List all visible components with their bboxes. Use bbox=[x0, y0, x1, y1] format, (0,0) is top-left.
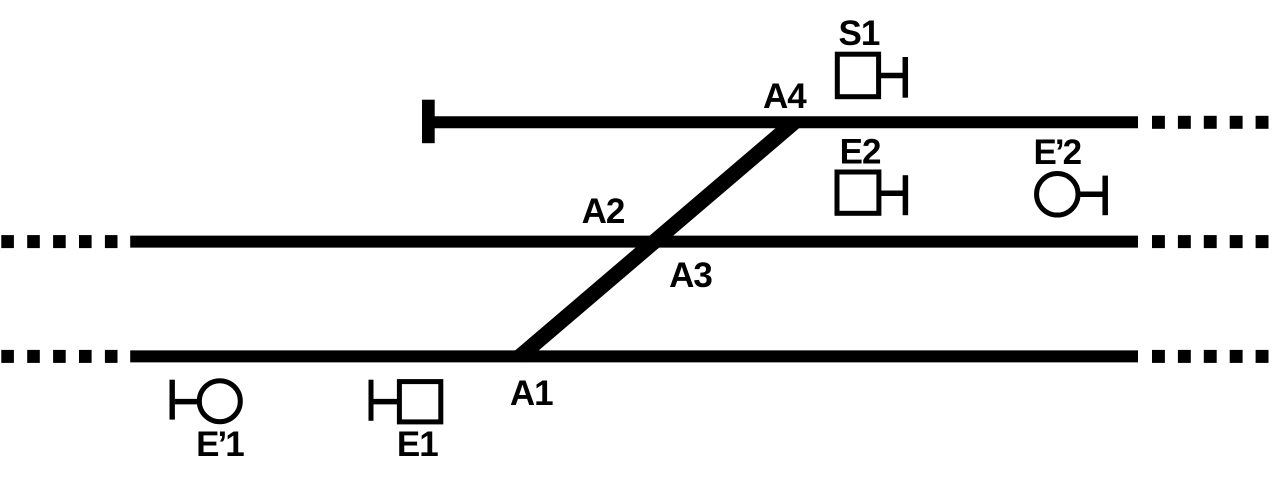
svg-text:A2: A2 bbox=[582, 192, 625, 231]
signal E'1 (circle head on post, left-pointing) bbox=[172, 380, 240, 422]
track T1 right dashed continuation bbox=[1152, 116, 1269, 129]
signal E2 (square head on post, right-pointing) bbox=[837, 172, 905, 215]
crossover diagonal track (A1 to A4) bbox=[520, 122, 794, 356]
track T2 right dashed continuation bbox=[1152, 235, 1269, 248]
svg-text:A4: A4 bbox=[763, 77, 807, 116]
track T3 (bottom main) solid segment bbox=[130, 350, 1138, 362]
svg-text:A1: A1 bbox=[510, 374, 553, 413]
track T3 right dashed continuation bbox=[1152, 350, 1269, 363]
svg-text:E’2: E’2 bbox=[1034, 133, 1082, 172]
svg-text:E1: E1 bbox=[397, 425, 438, 464]
signal E'2 (circle head on post, right-pointing) bbox=[1037, 174, 1106, 216]
svg-text:S1: S1 bbox=[838, 14, 879, 53]
buffer stop at left end of track T1 bbox=[422, 100, 435, 144]
signal E1 (square head on post, left-pointing) bbox=[371, 380, 441, 422]
track T2 left dashed continuation bbox=[1, 235, 117, 248]
track T2 (middle main) solid segment bbox=[130, 236, 1138, 248]
track T3 left dashed continuation bbox=[1, 350, 117, 363]
svg-text:E2: E2 bbox=[840, 133, 881, 172]
svg-text:A3: A3 bbox=[669, 256, 712, 295]
signal S1 (square head on post, right-pointing) bbox=[837, 54, 905, 97]
track T1 (top siding) solid segment bbox=[428, 116, 1138, 128]
svg-text:E’1: E’1 bbox=[196, 425, 244, 464]
